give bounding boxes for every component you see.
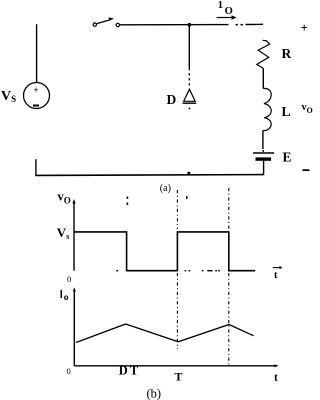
svg-text:1: 1	[218, 0, 223, 11]
svg-text:DT: DT	[119, 364, 140, 378]
wire diode branch solid	[188, 25, 190, 68]
svg-text:L: L	[282, 104, 291, 119]
svg-text:t: t	[274, 372, 278, 384]
inductor L	[263, 88, 271, 130]
svg-text:vO: vO	[302, 102, 313, 115]
voltage source Vs	[24, 83, 50, 109]
stray dot on zero line	[116, 270, 118, 272]
svg-text:t: t	[274, 270, 278, 281]
resistor R	[257, 40, 270, 68]
diode D	[183, 89, 197, 109]
svg-text:0: 0	[67, 366, 71, 376]
wire source top vertical	[36, 24, 38, 82]
svg-text:Vs: Vs	[57, 225, 70, 241]
svg-text:R: R	[282, 46, 292, 61]
current label iO	[217, 0, 237, 20]
svg-text:+: +	[34, 85, 39, 95]
wire top horizontal	[120, 24, 229, 26]
wire battery to bottom	[263, 161, 265, 175]
waveform iO plot	[61, 287, 279, 400]
wire bottom left vertical	[35, 159, 37, 176]
svg-text:E: E	[283, 150, 292, 165]
stray tick mark	[186, 196, 188, 199]
wire resistor to inductor	[262, 68, 264, 88]
switch S1	[93, 17, 119, 26]
faded zero line dashes	[185, 270, 220, 271]
dashed line at t=T	[176, 190, 178, 349]
svg-text:T: T	[175, 370, 183, 384]
waveform vO plot	[57, 188, 283, 365]
label iO axis	[61, 290, 63, 298]
dashed line at T+DT	[228, 188, 230, 365]
battery E	[253, 153, 274, 161]
node top junction	[188, 23, 191, 26]
svg-text:o: o	[64, 293, 69, 303]
svg-text:(b): (b)	[147, 387, 162, 400]
stray dotted mark above first edge	[127, 197, 129, 205]
node bottom junction	[187, 172, 190, 175]
axis vO vertical	[73, 201, 75, 271]
label t axis vO	[273, 266, 283, 281]
wire top faded dots	[236, 24, 243, 26]
label - terminal	[303, 169, 310, 171]
wire diode branch dashed	[188, 68, 190, 88]
svg-text:VS: VS	[1, 89, 16, 104]
svg-text:0: 0	[67, 274, 71, 284]
wire bottom horizontal	[35, 174, 263, 177]
svg-text:vO: vO	[58, 190, 71, 206]
axis iO vertical	[73, 289, 75, 366]
svg-text:+: +	[301, 20, 308, 35]
waveform vO trace	[75, 232, 256, 271]
waveform iO trace	[76, 324, 254, 343]
axis t horizontal	[74, 365, 276, 367]
wire top right segment	[246, 23, 264, 25]
wire inductor to battery	[262, 131, 264, 149]
svg-text:(a): (a)	[160, 183, 171, 194]
svg-text:D: D	[167, 92, 177, 107]
